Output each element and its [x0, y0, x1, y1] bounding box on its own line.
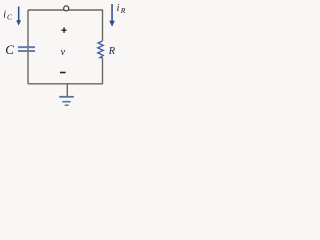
- svg-text:v: v: [61, 47, 66, 58]
- svg-text:R: R: [108, 46, 116, 57]
- svg-text:R: R: [120, 6, 126, 15]
- svg-text:i: i: [3, 9, 6, 20]
- svg-text:i: i: [117, 3, 120, 14]
- svg-text:C: C: [5, 42, 14, 57]
